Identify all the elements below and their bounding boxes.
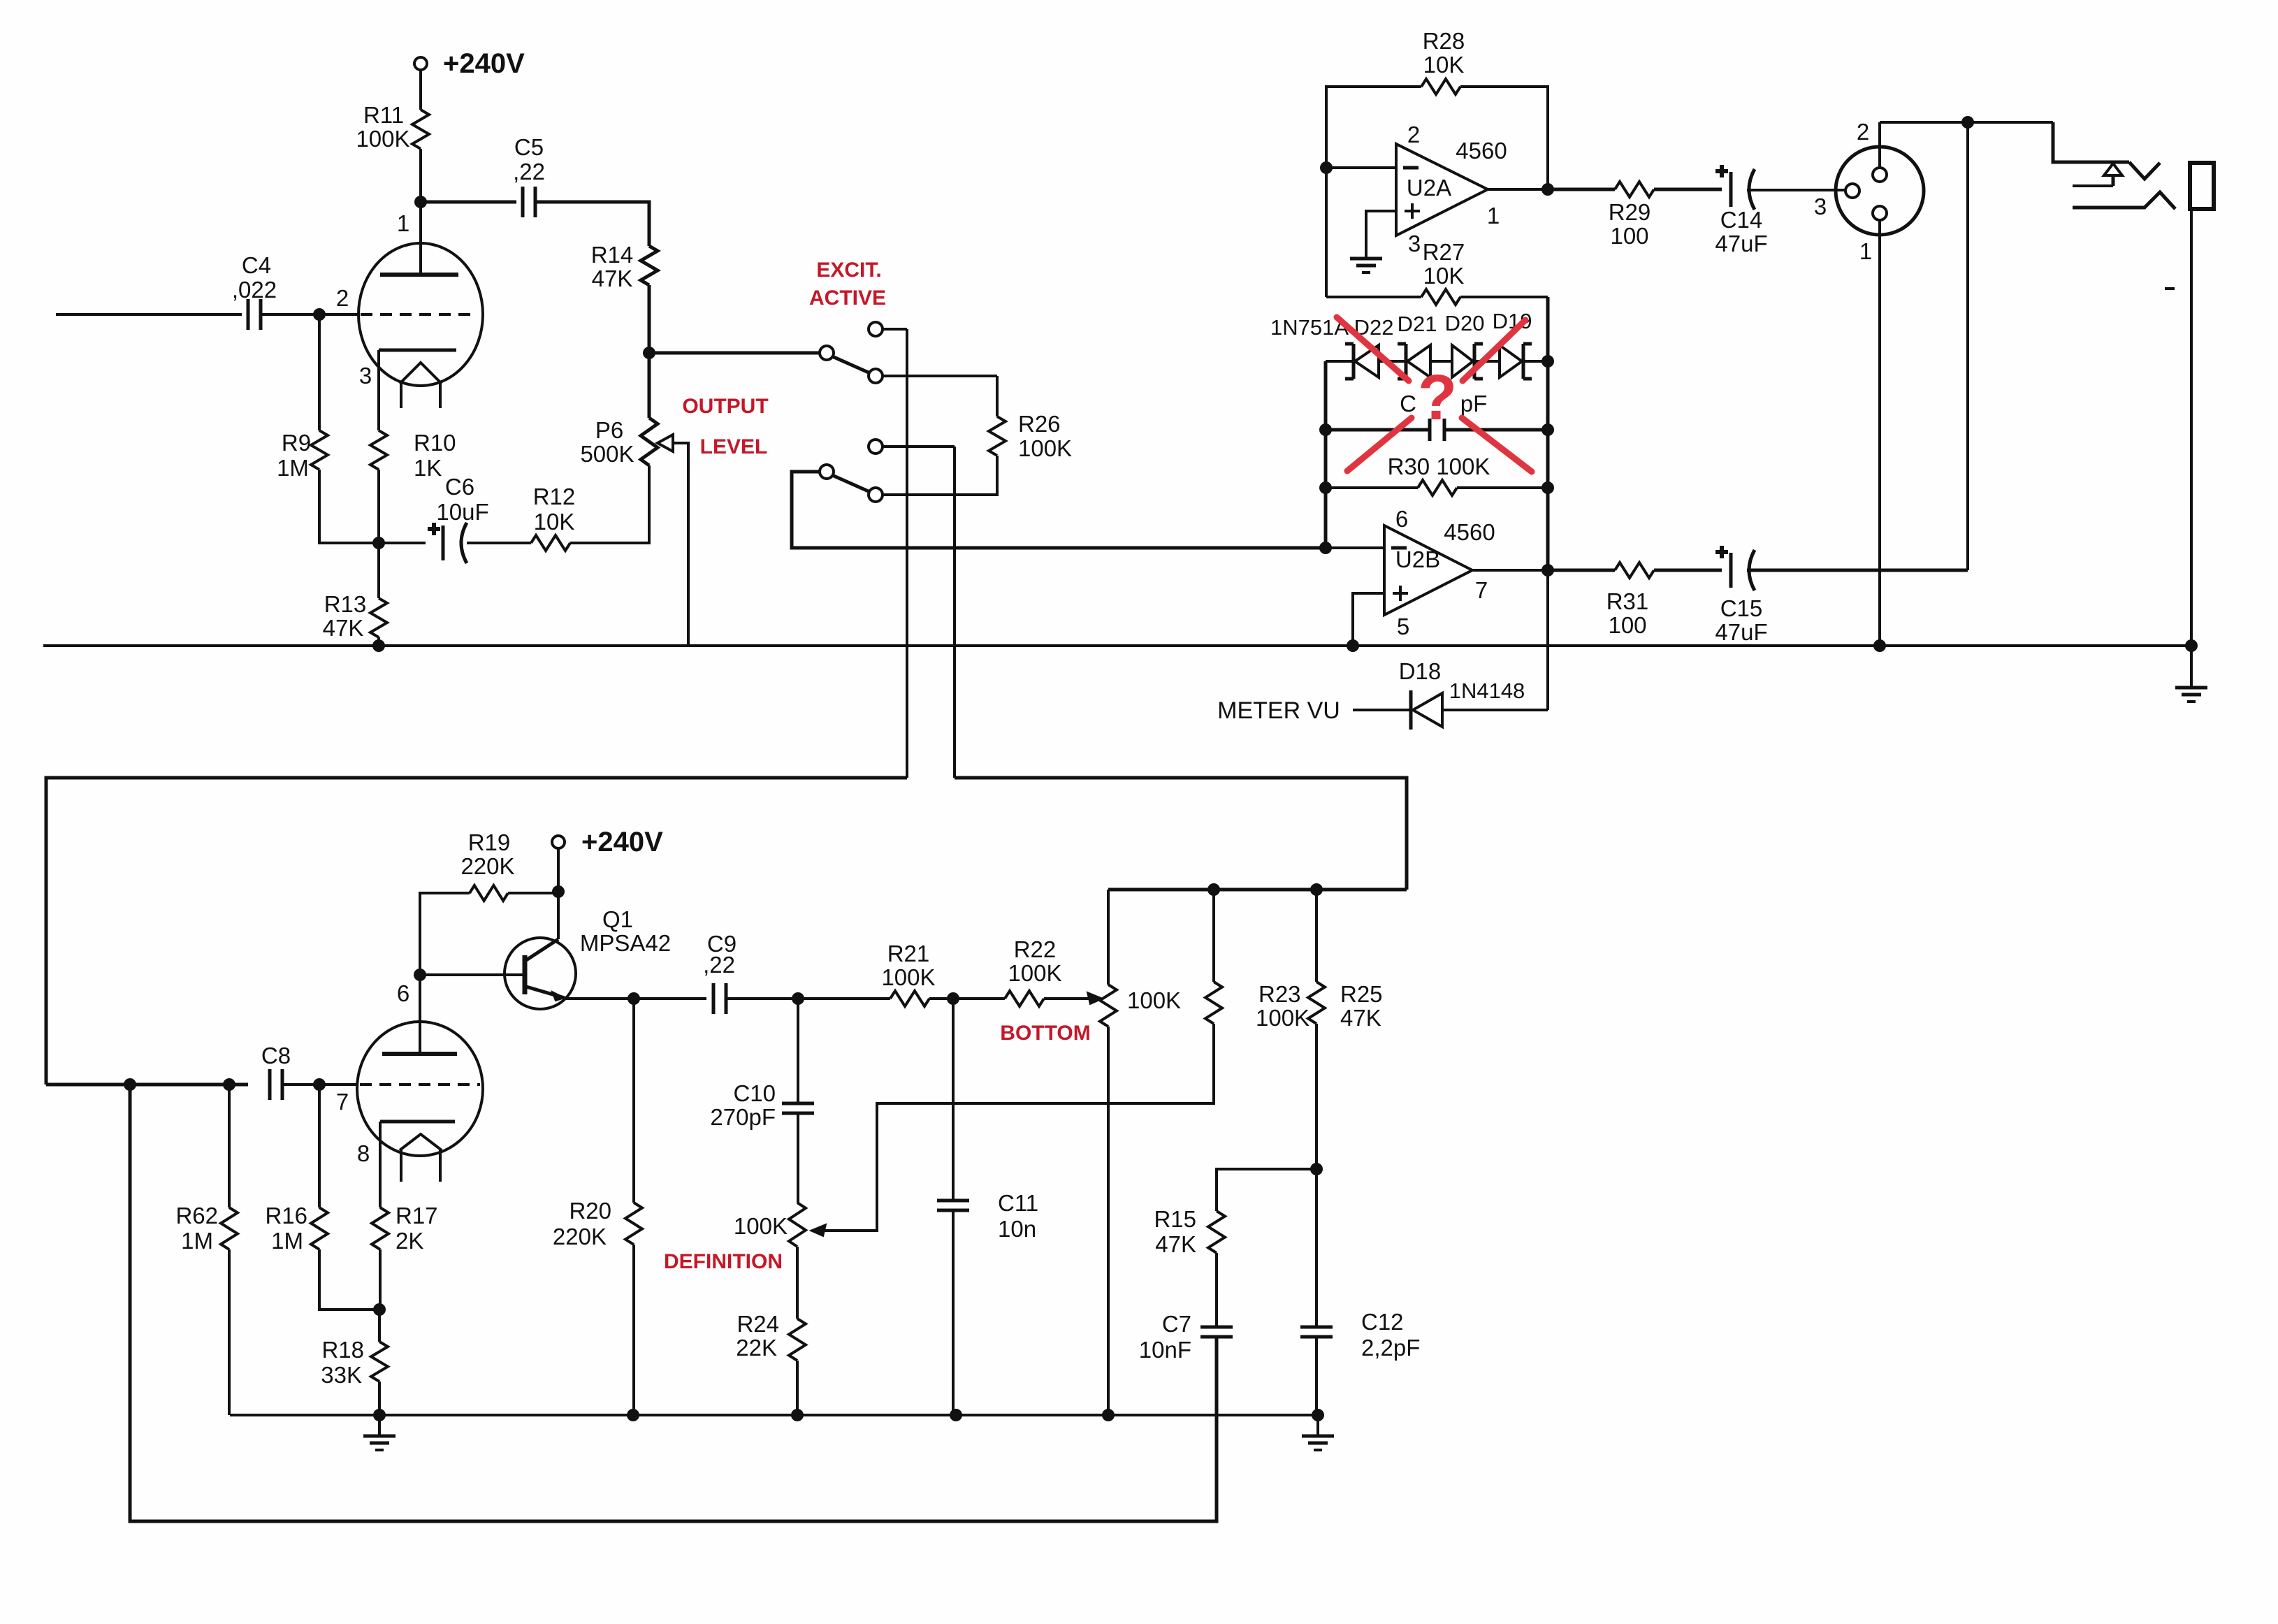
wire C11 column [952,999,955,1201]
capacitor C6 (10uF) [442,525,445,560]
wire [1353,709,1411,711]
svg-text:100K: 100K [356,126,409,152]
svg-text:C14: C14 [1720,207,1763,233]
svg-text:22K: 22K [736,1335,777,1361]
tube V1 envelope [358,243,483,386]
wire [1548,188,1615,191]
XLR connector J1 [1836,147,1924,235]
power terminal +240V (top) [414,57,427,70]
wire R15 top [1217,1169,1316,1211]
svg-text:100: 100 [1608,612,1646,638]
capacitor C? (unknown) [1326,428,1430,432]
capacitor C4 [247,299,250,330]
svg-text:R10: R10 [414,430,456,456]
svg-text:C6: C6 [445,474,474,500]
svg-text:R15: R15 [1154,1206,1196,1232]
capacitor C7 (10nF) [1200,1326,1233,1329]
svg-text:1M: 1M [181,1228,213,1254]
svg-text:1N4148: 1N4148 [1449,679,1525,703]
wire excit to bottom rail [955,778,1407,890]
potentiometer P6 500K [641,418,658,465]
wire [726,997,890,1000]
wire [1747,569,1968,572]
wire [319,470,379,543]
wire [883,456,997,495]
svg-text:C: C [1400,391,1416,416]
svg-text:C5: C5 [514,134,544,160]
wire [1315,890,1318,982]
lower input row [46,1083,248,1087]
wire [1488,188,1548,191]
svg-text:ACTIVE: ACTIVE [809,287,886,310]
capacitor C9 [712,983,716,1014]
zener D19 [1498,345,1501,377]
wire [1546,297,1550,361]
wire [261,313,358,316]
resistor R25 [1308,982,1325,1024]
resistor R10 [370,430,387,470]
wire [282,1083,358,1086]
wire [1315,1169,1318,1327]
wire [649,351,820,355]
wire P6 wiper to ground [673,443,688,646]
capacitor C12 (2,2pF) [1300,1326,1333,1329]
wire [1654,569,1722,572]
wire pot top [1107,890,1110,985]
ground (output) [2190,646,2193,688]
node R18 / ground bus [373,1409,386,1421]
wire [377,637,380,646]
wire [1654,188,1722,191]
wire [1215,1253,1218,1327]
node sleeve / ground bus [2185,639,2198,652]
capacitor C11 (10n) [937,1199,969,1203]
diode D18 (1N4148) [1409,690,1413,730]
node R13 / ground bus [372,639,385,652]
svg-text:,22: ,22 [703,952,735,978]
svg-text:10K: 10K [1423,263,1465,289]
node U2B+ / ground bus [1347,639,1359,652]
svg-text:D20: D20 [1445,311,1485,335]
wire [467,542,531,544]
ground bus (upper) [43,644,2191,647]
wire U2A + input to ground [1366,211,1396,256]
wire R22 arrow to pot [1044,997,1090,1000]
svg-text:METER VU: METER VU [1217,697,1340,724]
svg-text:10uF: 10uF [436,499,488,525]
ground bus (lower) [230,1414,1318,1416]
node cap row right [1541,423,1554,436]
svg-text:10n: 10n [998,1216,1036,1242]
small dash [2165,287,2175,290]
svg-text:Q1: Q1 [602,906,633,932]
resistor R26 [989,416,1006,456]
wire [228,1249,231,1415]
node C9 / R21 / C10 [792,992,804,1005]
svg-text:47uF: 47uF [1715,231,1767,256]
wire [953,447,956,778]
wire R19 left [420,893,470,975]
svg-text:U2A: U2A [1407,175,1451,201]
svg-text:100K: 100K [1127,987,1181,1013]
svg-text:R30 100K: R30 100K [1388,454,1490,479]
switch S1a pivot [820,346,834,360]
capacitor C10 (270pF) [782,1102,814,1105]
svg-text:1: 1 [1487,203,1500,229]
svg-text:100K: 100K [1008,960,1061,986]
svg-text:6: 6 [1395,506,1408,532]
wire XLR pin2 up [1878,122,1881,168]
svg-text:2K: 2K [396,1228,423,1254]
wire [570,465,649,543]
tube V2 grid (dashed) [360,1083,480,1086]
node R62 / input [223,1078,235,1091]
svg-text:3: 3 [1814,194,1827,219]
wire [508,892,558,894]
svg-text:100K: 100K [881,964,935,990]
svg-text:500K: 500K [580,441,634,467]
node R19 / +240V / Q1 collector [552,885,565,898]
wire [379,1249,382,1310]
svg-text:C4: C4 [242,252,271,278]
svg-text:C10: C10 [733,1080,776,1106]
resistor R14 [641,246,658,285]
resistor R31 [1615,563,1654,578]
switch S1a lever [832,356,870,373]
wire [1546,361,1550,570]
node rail / R23 [1207,883,1220,896]
svg-text:4560: 4560 [1456,138,1507,164]
wire [632,1245,635,1415]
svg-text:,22: ,22 [513,159,545,184]
svg-text:7: 7 [1475,577,1488,603]
wire Q1 emitter [563,997,706,1000]
svg-text:D18: D18 [1399,658,1442,684]
wire [906,329,908,778]
svg-text:47K: 47K [323,615,364,641]
switch S1a throw down [869,369,883,383]
wire [632,999,635,1203]
svg-text:R13: R13 [324,591,367,617]
wire [419,70,422,110]
wire U2B + input [1353,593,1384,646]
svg-text:100K: 100K [1018,435,1072,461]
resistor R15 [1208,1211,1225,1253]
resistor R27 [1421,289,1460,305]
resistor R24 [789,1319,806,1361]
svg-text:100K: 100K [1256,1005,1310,1031]
wire [419,149,422,202]
resistor R29 [1615,182,1654,197]
ground (U2A) [1365,256,1367,259]
wire [883,375,997,377]
wire [318,1085,321,1208]
svg-text:R16: R16 [265,1203,307,1228]
svg-text:1M: 1M [271,1228,303,1254]
svg-text:5: 5 [1397,614,1409,639]
svg-text:D21: D21 [1398,312,1437,336]
wire [319,1249,379,1310]
node U2A inverting input [1320,161,1333,174]
node rail / R25 [1310,883,1323,896]
tube V2 envelope [357,1022,483,1156]
wire U2A- to R27 [1325,168,1328,297]
svg-text:47uF: 47uF [1715,619,1767,645]
svg-text:2: 2 [336,285,349,311]
resistor R13 [370,598,387,637]
node plate V1 / R11 / C5 [414,196,427,208]
svg-text:6: 6 [397,980,409,1006]
wire [2053,122,2129,162]
wire [883,328,907,331]
bottom rail [1108,888,1407,892]
switch S1b lever [832,475,870,492]
svg-text:4560: 4560 [1444,519,1495,545]
svg-text:220K: 220K [553,1224,607,1249]
jack tip plug arrow [2104,164,2122,175]
svg-text:R28: R28 [1423,28,1465,54]
op-amp U2A [1396,144,1488,235]
capacitor C14 (47uF) [1729,172,1733,207]
ground (lower) [378,1415,381,1436]
svg-text:47K: 47K [1155,1231,1196,1257]
wire [1315,1337,1318,1415]
switch S1a throw up [869,322,883,336]
wire [1442,709,1548,711]
svg-text:C11: C11 [998,1190,1038,1216]
wire [1880,121,2053,124]
node R24 / ground bus [791,1409,804,1421]
node cap row left [1319,423,1332,436]
svg-text:P6: P6 [595,417,623,443]
jack sleeve [2190,163,2214,209]
svg-text:R21: R21 [887,941,930,966]
wire [377,543,380,598]
wire R23 to DEFINITION wiper [823,1024,1214,1231]
resistor R23 [1205,982,1222,1024]
wire sleeve to ground [2190,209,2193,646]
svg-text:R62: R62 [175,1203,218,1228]
svg-text:3: 3 [359,363,372,389]
red cross-out X [1337,317,1409,381]
node R25 / R15 / C12 [1310,1163,1323,1175]
svg-text:OUTPUT: OUTPUT [682,395,768,418]
wire [1326,360,1354,363]
resistor R11 [412,110,429,149]
wire [379,542,426,544]
wire [379,1122,382,1208]
node R21 / R22 / C11 [947,992,959,1005]
tube V1 heater [400,363,442,384]
svg-text:10nF: 10nF [1139,1337,1191,1363]
resistor R20 [625,1203,642,1245]
svg-text:R12: R12 [533,484,576,509]
svg-text:R24: R24 [737,1311,779,1337]
wire C10 column [797,999,799,1103]
switch S1b pivot [820,465,834,479]
capacitor C8 [268,1069,272,1100]
svg-text:U2B: U2B [1395,546,1440,572]
svg-text:C7: C7 [1162,1311,1191,1337]
wire [1966,122,1969,570]
tube V2 plate [382,1052,457,1056]
tube V1 grid (dashed) [361,313,472,316]
svg-text:BOTTOM: BOTTOM [1000,1022,1090,1045]
svg-text:R19: R19 [468,829,511,855]
svg-text:?: ? [1418,362,1457,433]
node grid V2 / R16 [313,1078,326,1091]
switch S1b throw down [869,488,883,502]
svg-text:7: 7 [336,1089,349,1115]
node C11 / ground bus [950,1409,962,1421]
potentiometer 100K (BOTTOM) [1100,985,1117,1027]
svg-text:R11: R11 [363,102,404,128]
wire [378,1310,381,1342]
svg-text:R26: R26 [1018,411,1061,437]
wire [796,1247,799,1319]
resistor R16 [311,1208,328,1249]
jack tip lever [2129,162,2160,179]
node U2A output [1541,183,1554,196]
svg-text:47K: 47K [592,266,633,291]
wire [883,445,955,448]
wire excit to lower input [46,778,907,1085]
svg-text:+240V: +240V [443,48,525,79]
capacitor C5 [521,187,525,217]
resistor R9 [311,430,328,470]
svg-text:2: 2 [1407,122,1420,147]
svg-text:220K: 220K [460,853,514,879]
node pot / ground bus [1102,1409,1115,1421]
node emitter / R20 [627,992,640,1005]
wire [792,472,1326,548]
wire [1472,569,1548,572]
svg-text:1M: 1M [277,455,309,481]
node grid V1 / R9 [313,308,326,321]
wire [228,1085,231,1208]
svg-text:100K: 100K [734,1213,788,1239]
wire Q1 base [420,973,525,976]
resistor R19 [470,885,508,901]
wire [421,201,516,204]
wire XLR pin1 to ground bus [1878,220,1881,646]
op-amp U2B [1384,525,1472,615]
svg-text:R25: R25 [1340,981,1383,1007]
node R16 / R17 / R18 [373,1303,386,1316]
node R30 row right [1541,481,1554,494]
resistor R28 [1421,79,1460,94]
wire [796,1361,799,1415]
wire [797,1113,799,1203]
node R14 / P6 / switch [643,347,655,359]
resistor R21 [890,991,929,1006]
svg-text:R23: R23 [1258,981,1301,1007]
wire [377,350,380,430]
resistor R62 [221,1208,238,1249]
svg-text:1: 1 [397,210,409,236]
svg-text:R27: R27 [1423,239,1465,265]
svg-text:R17: R17 [396,1203,438,1228]
svg-text:R29: R29 [1609,199,1651,225]
tube V2 heater [400,1134,442,1150]
svg-text:C15: C15 [1720,595,1763,621]
resistor R30 [1326,486,1418,489]
svg-text:EXCIT.: EXCIT. [816,259,881,282]
node U2B inverting input [1319,542,1332,554]
resistor R17 [372,1208,389,1249]
wire [1324,361,1328,548]
wire C7 return [130,1085,1217,1521]
svg-text:R9: R9 [282,430,311,456]
node R30 row left [1319,481,1332,494]
wire [378,1382,381,1415]
wire [557,848,560,892]
wire pot bottom [1107,1027,1110,1415]
node zener row right [1541,355,1554,368]
tube V1 cathode [379,349,456,352]
wire [1747,189,1845,191]
power terminal +240V (lower) [552,836,565,848]
resistor R22 [1005,991,1044,1006]
svg-text:100: 100 [1610,223,1648,249]
svg-text:pF: pF [1460,391,1488,416]
node C12 / ground bus [1312,1409,1324,1421]
svg-text:33K: 33K [321,1362,362,1388]
transistor Q1 MPSA42 [505,938,576,1009]
wire [1326,296,1421,298]
wire [996,376,999,416]
svg-text:1K: 1K [414,455,442,481]
svg-text:R22: R22 [1014,936,1057,962]
switch S1b throw up [869,440,883,454]
svg-text:C12: C12 [1361,1309,1404,1335]
wire R28 feedback loop [1326,87,1421,168]
node C7-return / input [124,1078,136,1091]
tube V1 plate [380,273,458,277]
node V2 plate / Q1 base [414,969,426,981]
jack ring lever [2073,192,2175,209]
wire [1548,569,1615,572]
resistor R18 [371,1342,388,1382]
svg-text:R20: R20 [569,1198,611,1224]
svg-text:1: 1 [1859,238,1872,264]
svg-text:8: 8 [357,1140,370,1166]
zener D21 [1405,344,1408,379]
svg-text:47K: 47K [1340,1005,1381,1031]
wire [535,202,649,246]
zener D20 [1451,345,1453,377]
wire [1546,570,1549,710]
resistor R12 [531,535,570,551]
wire P6 top [648,353,651,418]
svg-text:C8: C8 [261,1043,291,1068]
wire [648,285,651,353]
node R20 / ground bus [627,1409,639,1421]
svg-text:2: 2 [1857,119,1869,145]
svg-text:R18: R18 [321,1337,364,1363]
svg-text:R31: R31 [1606,588,1649,614]
input wire (top left) [56,313,242,316]
svg-text:2,2pF: 2,2pF [1361,1335,1420,1361]
svg-text:3: 3 [1408,231,1421,256]
svg-text:DEFINITION: DEFINITION [664,1250,783,1273]
svg-text:+240V: +240V [581,827,663,857]
wire [1315,1024,1318,1169]
wire [377,470,380,543]
svg-text:,022: ,022 [232,277,277,303]
wire [318,314,321,430]
svg-text:270pF: 270pF [710,1104,776,1130]
